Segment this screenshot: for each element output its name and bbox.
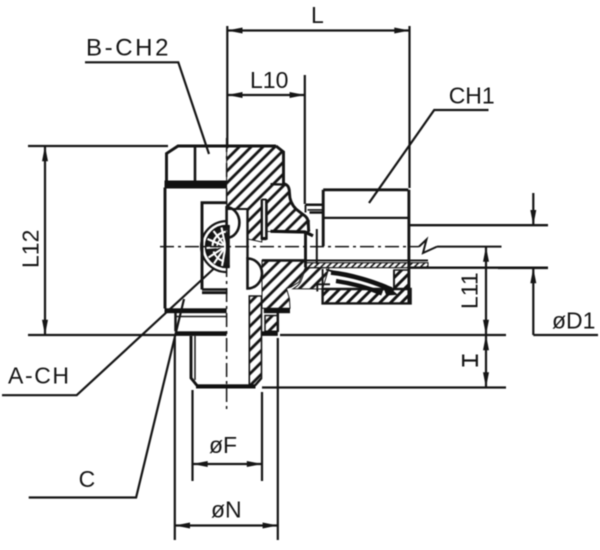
A-CH leader — [2, 268, 215, 395]
stub thread lines — [306, 204, 324, 207]
washer bottom black bands — [176, 331, 227, 336]
stud thread root line — [194, 336, 196, 380]
svg-text:A-CH: A-CH — [8, 363, 71, 389]
nut lower-right hatch — [394, 270, 409, 289]
svg-text:L10: L10 — [250, 67, 288, 93]
L dim line — [227, 29, 409, 31]
tube lower wall fine hatch band — [306, 263, 429, 268]
oD1 bottom ext — [498, 267, 548, 269]
washer top thin line — [176, 316, 227, 318]
tube inner bottom line — [306, 259, 429, 261]
bolt thread double line — [261, 200, 263, 240]
svg-text:øF: øF — [209, 432, 237, 458]
centerline solid extension (L11 top ext) — [437, 246, 502, 248]
oF dim line — [193, 463, 263, 465]
svg-text:øN: øN — [211, 497, 242, 523]
I arrows — [483, 335, 489, 350]
svg-text:B-CH2: B-CH2 — [86, 35, 171, 62]
oD1 arrows — [530, 210, 536, 225]
CH1 leader — [369, 110, 489, 203]
break zigzag on centerline — [419, 240, 437, 254]
body lower-right section hatch — [262, 260, 306, 308]
nut outline — [323, 188, 408, 191]
shoulder + S profile — [284, 184, 309, 232]
bolt right edge segments — [246, 209, 248, 259]
oN arrows — [175, 523, 190, 529]
washer right section hatch — [265, 316, 278, 332]
nut counterbore vertical — [393, 270, 395, 289]
white rect top line — [227, 208, 248, 210]
L extension lines — [226, 26, 228, 146]
body bottom black band left — [165, 308, 227, 313]
nut inner step lines below centerline — [317, 283, 330, 285]
olive cutting ring dark curves — [326, 270, 392, 289]
I bottom ext — [262, 386, 506, 388]
port face verticals — [307, 220, 310, 232]
stub cone line down — [316, 229, 318, 264]
eye inner rectangle — [202, 203, 227, 290]
oF ext lines — [191, 390, 193, 481]
hex facet line — [194, 148, 197, 181]
B-CH2 leader — [85, 62, 209, 154]
body bottom black band right — [264, 308, 290, 313]
arrowheads — [42, 28, 536, 529]
eye bore circle arc — [201, 221, 226, 272]
stud bottom black band — [196, 384, 256, 388]
L11 + I dim line — [485, 247, 487, 388]
upper washer black band — [165, 181, 227, 188]
washer sides — [174, 313, 177, 331]
L11 arrows — [483, 247, 489, 262]
bolt wall hatch strip — [249, 296, 261, 386]
lower cross-hole bulge — [248, 259, 263, 289]
svg-text:C: C — [79, 466, 96, 492]
body section under tube band — [293, 268, 329, 289]
vertical centerline — [226, 138, 228, 412]
L12 bottom ext / I top ext — [28, 334, 176, 336]
upper cross-hole semicircle — [227, 207, 240, 238]
horizontal centerline — [160, 246, 419, 248]
svg-text:øD1: øD1 — [552, 308, 595, 334]
svg-text:L12: L12 — [18, 230, 44, 268]
svg-text:L: L — [311, 2, 324, 28]
bore lower wall line — [262, 259, 306, 262]
L12 arrows — [42, 146, 48, 161]
bore top thick seat line — [271, 231, 314, 236]
L10 arrows — [227, 92, 242, 98]
L arrows — [227, 28, 242, 34]
svg-text:L11: L11 — [457, 272, 483, 309]
hex head outline — [167, 146, 277, 181]
L12 top ext — [28, 145, 168, 147]
tube top line — [408, 224, 548, 226]
oN dim line — [175, 524, 278, 526]
stud right chamfer — [255, 378, 262, 386]
oF arrows — [193, 461, 208, 467]
body left edge — [164, 188, 167, 309]
stud outline left — [191, 336, 197, 386]
body top thin line under band — [165, 187, 227, 189]
L12 dim line — [44, 146, 46, 335]
main upper body section hatch — [227, 146, 309, 242]
nut bottom block hatch — [323, 289, 411, 303]
svg-text:CH1: CH1 — [449, 83, 495, 109]
L10 right ext — [304, 75, 306, 204]
oD1 dim verticals — [532, 193, 534, 225]
C leader — [29, 299, 184, 498]
shoulder top line — [271, 183, 287, 186]
tube bottom line — [408, 267, 548, 269]
oN ext lines — [174, 338, 176, 540]
L10 dim line — [227, 94, 304, 96]
